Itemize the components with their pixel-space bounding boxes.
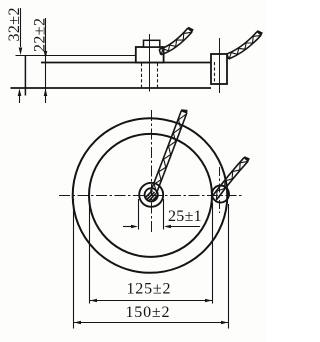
- wire W1 plan band: [151, 111, 187, 194]
- dimension 125 line with arrows: [90, 300, 213, 302]
- plan view: outer circle 150: [73, 118, 228, 273]
- dimension 32 top stem and arrow: [20, 8, 22, 47]
- eyelet 1 outer ring: [139, 183, 163, 207]
- wire W1 side view band: [159, 28, 192, 54]
- plan view: inner circle 125: [89, 134, 212, 257]
- wire W1 plan hatch: [154, 115, 185, 192]
- wire W2 side hatch: [229, 36, 260, 59]
- side view: plate surface line: [41, 62, 211, 64]
- svg-text:125±2: 125±2: [127, 281, 172, 298]
- dimension 125 extension lines: [90, 199, 213, 304]
- wire W2 side tip cap: [257, 31, 262, 36]
- eyelet 2 circle: [212, 186, 229, 203]
- dimension 25 extension lines: [139, 199, 164, 230]
- dimension 150 line with arrows: [74, 322, 229, 324]
- eyelet 1 inner circle: [145, 188, 158, 201]
- wire W2 plan band: [212, 158, 248, 200]
- wire W1 side tip cap: [188, 27, 193, 32]
- svg-text:25±1: 25±1: [168, 208, 202, 225]
- dimension bottom stem and arrow at x=44.7: [44, 89, 48, 97]
- wire W2 plan hatch: [216, 162, 247, 199]
- svg-text:32±2: 32±2: [6, 7, 23, 41]
- svg-text:22±2: 22±2: [32, 18, 49, 52]
- dimension 22 top stem and arrow: [45, 18, 47, 103]
- side view: left edge: [24, 55, 26, 96]
- wire W2 side view band: [227, 32, 261, 59]
- centerline of terminal 2: [219, 38, 221, 93]
- wire W2 plan tip cap: [244, 157, 249, 162]
- terminal block 1: [136, 47, 164, 63]
- side view: rim top line: [16, 55, 137, 57]
- dimension 150 extension lines: [74, 199, 229, 329]
- wire W1 side hatch: [161, 32, 191, 54]
- terminal 2 bracket: [211, 54, 227, 84]
- svg-text:150±2: 150±2: [126, 304, 171, 321]
- side view: bottom line: [11, 87, 212, 89]
- centerline of terminal 1: [149, 34, 151, 92]
- nut on terminal block 1: [144, 40, 160, 47]
- wire W1 end inside eyelet 1: [146, 191, 158, 202]
- vertical centerline through disc center: [151, 110, 153, 232]
- vertical centerline through eyelet 2: [219, 167, 221, 213]
- dimension 25 line left part with arrow: [123, 226, 132, 228]
- hidden right edge of plate: [214, 62, 216, 84]
- dimension 25 line right part with arrow: [170, 226, 200, 228]
- horizontal centerline: [59, 195, 242, 197]
- dimension bottom stem and arrow at x=19: [19, 95, 21, 103]
- wire W1 plan tip cap: [181, 110, 187, 113]
- hidden lines under terminal 1: [142, 63, 158, 88]
